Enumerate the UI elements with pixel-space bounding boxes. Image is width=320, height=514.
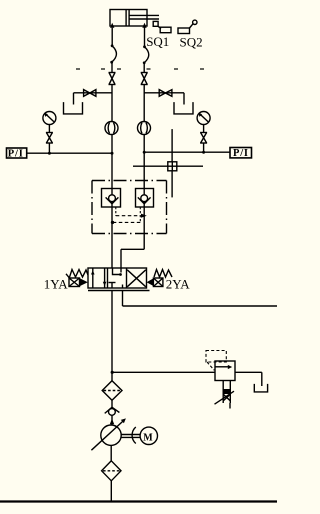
svg-text:M: M (143, 432, 153, 443)
svg-text:P/I: P/I (233, 148, 249, 159)
svg-text:SQ1: SQ1 (146, 34, 169, 49)
svg-text:1YA: 1YA (44, 277, 68, 292)
svg-text:P/I: P/I (8, 149, 24, 160)
svg-text:SQ2: SQ2 (180, 35, 203, 50)
svg-text:2YA: 2YA (166, 277, 190, 292)
